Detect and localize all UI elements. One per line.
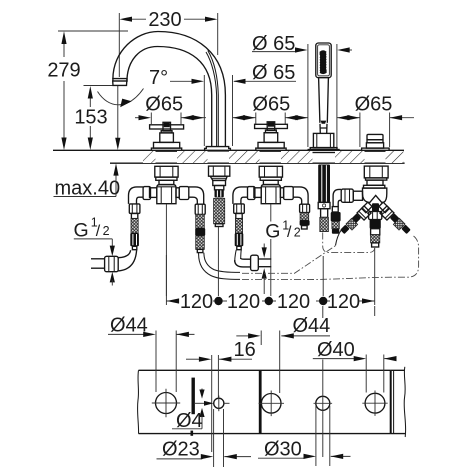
dimension dia44 right (236, 315, 330, 393)
inlet elbow 2 with G1/2 thread (235, 255, 272, 270)
hole circle dia40 (362, 391, 387, 416)
hose routing dash-dot: valve1 to diverter right inlet (242, 236, 419, 280)
handshower (308, 43, 339, 153)
label dia65 handshower (top) (252, 33, 352, 55)
svg-text:120: 120 (227, 291, 260, 313)
svg-text:230: 230 (148, 9, 181, 31)
dimension 279 (47, 31, 128, 150)
valve 2 center line (270, 204, 272, 222)
diverter right diagonal outlet arm (379, 202, 411, 234)
angle note 7deg (98, 67, 205, 107)
label max.40 (54, 163, 121, 199)
extension lines diverter (360, 113, 390, 148)
section edge bar right (259, 370, 262, 433)
diverter center line (374, 248, 376, 296)
svg-text:120: 120 (327, 291, 360, 313)
svg-text:7°: 7° (149, 67, 168, 89)
svg-text:/: / (96, 223, 101, 240)
plan view mounting surface (138, 367, 406, 437)
svg-text:Ø65: Ø65 (355, 94, 393, 116)
dimension chain 120 x4 (166, 255, 374, 313)
extension lines handshower (308, 44, 337, 147)
svg-text:Ø44: Ø44 (293, 315, 331, 337)
center line handshower to plan (322, 306, 324, 318)
extension lines spout dia65 (203, 75, 205, 146)
cross handle 1 (150, 122, 184, 151)
svg-text:Ø40: Ø40 (317, 339, 355, 361)
svg-text:Ø30: Ø30 (264, 438, 302, 460)
cross handle 2 (255, 122, 288, 151)
handshower shank below deck (318, 165, 330, 232)
handshower center line (322, 256, 324, 296)
hole circle dia30 (314, 396, 333, 410)
inlet elbow 1 with G1/2 thread (91, 250, 137, 272)
spout shank below deck (209, 166, 230, 226)
spout escutcheon (205, 147, 231, 151)
hose routing dash-dot: diverter center to handshower (323, 233, 375, 253)
diverter left diagonal outlet arm (336, 202, 373, 245)
svg-text:2: 2 (103, 224, 110, 238)
extension lines handle2 (256, 113, 285, 125)
extension lines handle1 (151, 113, 181, 125)
svg-text:Ø44: Ø44 (110, 315, 148, 337)
label G1/2 left (74, 216, 115, 286)
valve 1 body below deck (129, 166, 204, 249)
valve 1 center line (165, 204, 167, 296)
svg-text:Ø23: Ø23 (162, 439, 200, 461)
valve 2 right outlet short hose (300, 204, 310, 229)
dimension dia30 (258, 406, 351, 466)
dimension 230 (119, 9, 217, 77)
svg-text:16: 16 (234, 339, 256, 361)
svg-text:G: G (74, 220, 89, 242)
spout reference line / max40 upper arrow (115, 86, 120, 150)
hole circle dia44 left (152, 389, 180, 417)
svg-text:Ø65: Ø65 (145, 94, 183, 116)
svg-text:120: 120 (180, 291, 213, 313)
dia65 arrow chain at y118 (135, 115, 414, 120)
svg-text:153: 153 (74, 107, 107, 129)
center line diverter to plan (374, 306, 376, 316)
valve 2 left hose S-curve to elbow 2 (235, 250, 242, 262)
svg-text:279: 279 (47, 60, 80, 82)
spout body (swan neck) (113, 32, 226, 147)
section edge bar left (191, 378, 194, 415)
spout center line (217, 227, 219, 296)
label dia65 spout (233, 62, 296, 84)
label G1/2 right (262, 219, 301, 294)
svg-text:Ø65: Ø65 (252, 94, 290, 116)
diverter left arm hex and elbow (331, 189, 363, 234)
diverter center outlet (369, 203, 382, 247)
svg-text:G: G (265, 220, 280, 242)
svg-text:Ø 65: Ø 65 (252, 62, 295, 84)
dimension dia44 left (108, 315, 195, 392)
hole circle dia23/dia4 (214, 396, 230, 412)
dimension dia4 (172, 389, 214, 432)
dimension 16 (186, 339, 256, 452)
hose routing dash-dot: elbow2 to diverter left inlet (242, 246, 335, 273)
dimension 153 (74, 86, 113, 151)
svg-text:120: 120 (277, 291, 310, 313)
valve 2 body below deck (233, 166, 308, 249)
valve 1 right outlet braided hose (195, 204, 240, 279)
dimension dia23 (157, 409, 252, 467)
hole circle dia44 mid (259, 391, 285, 417)
bath deck section (53, 150, 405, 163)
dimension dia40 (313, 339, 397, 393)
diverter valve 3 below deck (363, 166, 389, 202)
svg-text:2: 2 (294, 225, 301, 239)
diverter knob (362, 134, 390, 151)
svg-text:/: / (287, 224, 292, 241)
